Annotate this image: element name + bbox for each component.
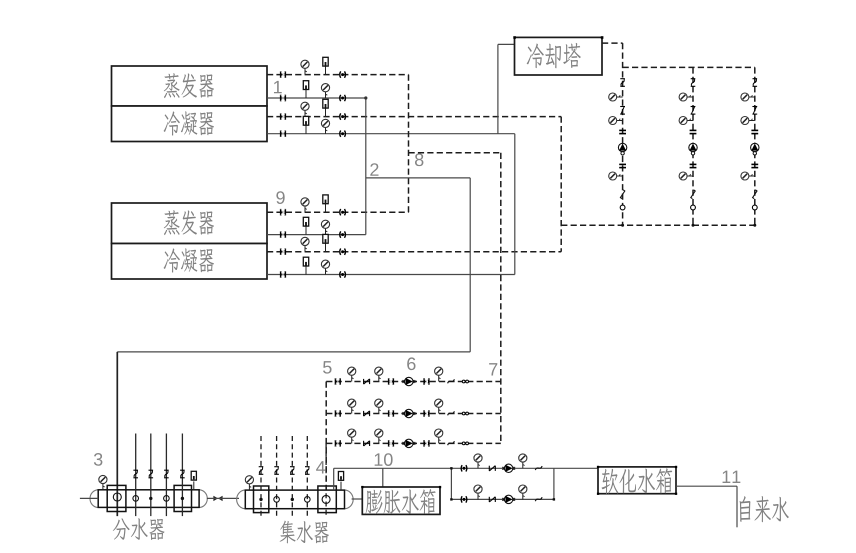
grip dot [361, 486, 363, 488]
grip dot [597, 466, 599, 468]
label node label 3 [94, 453, 103, 466]
pipe: cond1 cooling supply [267, 133, 515, 135]
label node label 11 [723, 471, 741, 483]
pressure gauge PG-B1 [321, 84, 329, 98]
valve row3 b [389, 440, 394, 447]
thermometer T-F1 [303, 217, 308, 234]
valve row2 c [424, 410, 429, 417]
pressure gauge distributor [99, 475, 107, 489]
makeup pump MP2 [502, 495, 515, 503]
valve V-E2 [340, 209, 346, 215]
thermometer T-A1 [323, 57, 328, 74]
pipe: cond1 cooling return (dashed) [267, 116, 561, 118]
pipe: cooling pump branch 2 vertical [692, 67, 694, 225]
valve V-A1 [281, 71, 286, 78]
riser dot [259, 498, 262, 501]
pipe: collector riser 4 (dashed) [306, 436, 308, 516]
valve collector riser 3 [290, 467, 295, 475]
riser dot [291, 498, 294, 501]
grip dot [597, 493, 599, 495]
pressure gauge cooling branch 1 lower [609, 172, 623, 180]
pressure gauge cooling branch 3 lower [741, 172, 755, 180]
flexible joint cooling branch 2 [691, 190, 695, 199]
pipe: tower outlet horizontal [498, 43, 515, 45]
thermometer T-C1 [323, 99, 328, 116]
pipe: tower supply riser x497 [497, 44, 499, 133]
pressure gauge row1 a [348, 367, 356, 381]
pipe: tap water drop [736, 486, 738, 527]
riser ring [274, 497, 280, 503]
label node label 4 [316, 461, 325, 473]
label node label 1 [274, 81, 282, 93]
valve row1 b [389, 378, 394, 385]
valve V-C1 [281, 113, 286, 120]
junction dot [621, 224, 624, 227]
softened water tank 软化水箱 box [598, 467, 676, 494]
label evaporator 2 text 蒸发器 [164, 210, 214, 235]
pressure gauge makeup row1 a [474, 454, 482, 468]
valve V-F2 [340, 231, 346, 237]
valve V-B1 [281, 95, 286, 102]
label node label 6 [407, 357, 415, 370]
chiller unit 1 condenser box [112, 106, 268, 142]
union row1 [462, 380, 468, 383]
pipe: distributor riser 3 [165, 434, 167, 517]
check valve cooling branch 2 [691, 107, 696, 115]
label node label 7 [489, 363, 497, 375]
grip dot [439, 486, 441, 488]
collector vessel body [237, 490, 354, 509]
label condenser 2 text 冷凝器 [164, 248, 214, 272]
cooling water pump CP2 [689, 143, 697, 155]
pipe: expansion tank drop [382, 468, 384, 487]
check valve cooling branch 3 [752, 107, 757, 115]
valve V-C2 [340, 113, 346, 119]
pressure gauge PG-E1 [301, 198, 309, 212]
chilled water pump P2 [403, 409, 416, 417]
valve collector riser 1 [259, 467, 264, 475]
thermometer T-E1 [323, 195, 328, 212]
pressure gauge cooling branch 2 mid [679, 117, 693, 125]
pressure gauge PG-H1 [321, 260, 329, 274]
valve collector riser 4 [305, 467, 310, 475]
label node label 10 [375, 453, 393, 466]
bowtie valve between headers [213, 496, 222, 501]
pipe: evap2 chilled supply [267, 234, 366, 236]
riser ring [305, 497, 311, 503]
flexible joint row1 [448, 379, 455, 383]
valve makeup row1 [461, 465, 467, 471]
pipe: chilled pump row 2 (dashed) [326, 413, 501, 415]
pressure gauge cooling branch 1 mid [609, 117, 623, 125]
cooling tower box [515, 37, 603, 75]
pipe: makeup pump right manifold [553, 468, 555, 499]
valve V-A2 [340, 71, 346, 77]
distributor inlet ring [113, 493, 121, 501]
pipe: distributor-collector link [207, 497, 239, 499]
pressure gauge makeup row2 a [474, 485, 482, 499]
label node label 8 [415, 153, 423, 166]
label softened water tank text 软化水箱 [602, 468, 673, 494]
thermometer T-G1 [323, 234, 328, 251]
pipe: makeup drop to collector [333, 468, 335, 490]
pipe: chilled pump row 1 (dashed) [326, 381, 501, 383]
distributor support leg right [174, 485, 191, 511]
pipe: chilled return drop x500 [500, 153, 502, 444]
pressure gauge PG-C1 [301, 102, 309, 116]
valve row1 a [336, 378, 341, 385]
check valve row1 [364, 379, 370, 384]
grip dot [675, 466, 677, 468]
pressure gauge row2 a [348, 399, 356, 413]
pipe: distributor riser 1 [135, 434, 137, 517]
pipe: cond2 cooling supply [267, 274, 515, 276]
pipe: chilled supply drop x470 [469, 178, 471, 352]
drain vent cooling branch 2 [691, 205, 696, 210]
flange pair cooling branch 1 above pump [619, 130, 626, 133]
pipe: collector riser 1 (dashed) [260, 436, 262, 516]
union row3 [462, 442, 468, 445]
flexible joint makeup row2 [535, 497, 542, 501]
pressure gauge row3 c [435, 429, 443, 443]
pipe: cond2 cooling return (dashed) [267, 251, 561, 253]
valve collector riser 2 [274, 467, 279, 475]
label tap water text 自来水 [740, 496, 789, 522]
pipe: cooling supply riser x514 [514, 134, 516, 275]
flexible joint row3 [448, 441, 455, 445]
pressure gauge row1 b [375, 367, 383, 381]
union row2 [462, 412, 468, 415]
label condenser 1 text 冷凝器 [164, 111, 214, 135]
junction dot [450, 467, 452, 469]
valve distributor riser 2 [149, 470, 154, 478]
pipe: cooling pump bottom header (dashed) [561, 224, 755, 226]
pipe: makeup line horizontal [334, 467, 598, 469]
pressure gauge PG-D1 [321, 119, 329, 133]
flexible joint makeup row1 [535, 466, 542, 470]
pressure gauge cooling branch 1 upper [609, 93, 623, 101]
pipe: chilled supply header 2 horizontal [366, 177, 470, 179]
check valve row2 [364, 411, 370, 416]
thermometer T-H1 [303, 257, 308, 274]
pipe: cooling return riser x561 [560, 117, 562, 252]
cooling water pump CP3 [751, 143, 759, 155]
distributor support leg left [107, 485, 126, 511]
pressure gauge row3 a [348, 429, 356, 443]
label cooling tower text 冷却塔 [527, 43, 581, 68]
pipe: distributor axis stub left [80, 497, 98, 499]
pipe: chilled supply run to distributor [117, 351, 470, 353]
collector outlet ring [322, 495, 330, 503]
pipe: collector axis link to tank [352, 498, 363, 500]
valve V-D2 [340, 131, 346, 137]
label evaporator 1 text 蒸发器 [164, 73, 214, 98]
valve V-E1 [281, 209, 286, 216]
valve V-D1 [281, 130, 286, 137]
grip dot [675, 493, 677, 495]
label expansion tank text 膨胀水箱 [366, 489, 436, 514]
valve row2 b [389, 410, 394, 417]
pipe: cooling pump branch 3 vertical [754, 67, 756, 225]
pipe: chilled return header 8 horizontal [409, 152, 501, 154]
pressure gauge row3 b [375, 429, 383, 443]
chilled water pump P3 [403, 439, 416, 447]
distributor vessel body [90, 490, 207, 508]
pressure gauge row2 b [375, 399, 383, 413]
junction dot [553, 498, 555, 500]
flange pair cooling branch 2 below pump [690, 164, 697, 167]
pressure gauge makeup row1 b [519, 454, 527, 468]
pressure gauge makeup row2 b [519, 485, 527, 499]
butterfly valve cooling branch 2 [691, 79, 696, 87]
valve V-H1 [281, 271, 286, 278]
riser ring [164, 496, 170, 502]
pressure gauge PG-A1 [301, 60, 309, 74]
chilled water pump P1 [403, 377, 416, 385]
pipe: evap1 chilled return (dashed) [267, 74, 409, 76]
check valve cooling branch 1 [620, 107, 625, 115]
label node label 2 [370, 163, 378, 176]
valve distributor riser 1 [133, 470, 138, 478]
riser ring [133, 496, 139, 502]
makeup pump MP1 [502, 464, 515, 472]
valve row3 a [336, 440, 341, 447]
grip dot [513, 36, 516, 39]
pipe: distributor riser 2 [150, 434, 152, 517]
flexible joint row2 [448, 411, 455, 415]
drain vent cooling branch 1 [620, 205, 625, 210]
thermometer distributor [191, 471, 196, 490]
valve makeup row2 [461, 496, 467, 502]
flange pair cooling branch 2 above pump [690, 130, 697, 133]
thermometer T-B1 [303, 81, 308, 98]
pressure gauge cooling branch 3 mid [741, 117, 755, 125]
check valve makeup row2 [489, 497, 495, 502]
flexible joint cooling branch 1 [620, 190, 624, 199]
cooling water pump CP1 [618, 143, 626, 155]
valve distributor riser 3 [164, 470, 169, 478]
pipe: collector riser 3 (dashed) [291, 436, 293, 516]
pipe: makeup pump lower row [451, 498, 554, 500]
pipe: chilled pump left column (dashed) [325, 382, 327, 491]
pipe: chilled return riser x408 [408, 75, 410, 213]
valve V-B2 [340, 95, 346, 101]
flange pair cooling branch 1 below pump [619, 164, 626, 167]
collector support leg right [318, 486, 336, 513]
thermometer T-D1 [303, 116, 308, 133]
label node label 5 [323, 361, 332, 374]
valve distributor riser 4 [180, 470, 185, 478]
pipe: distributor riser 4 [181, 434, 183, 517]
butterfly valve cooling branch 3 [753, 79, 758, 87]
expansion tank 膨胀水箱 box [362, 487, 440, 514]
valve V-F1 [281, 231, 286, 238]
junction dot [364, 96, 367, 99]
pressure gauge row1 c [435, 367, 443, 381]
valve row1 c [424, 378, 429, 385]
pipe: evap1 chilled supply [267, 97, 366, 99]
check valve makeup row1 [489, 466, 495, 471]
pipe: chilled supply riser x365 [365, 98, 367, 235]
pressure gauge cooling branch 3 upper [741, 93, 755, 101]
valve V-G1 [281, 248, 286, 255]
valve V-H2 [340, 271, 346, 277]
chiller unit 2 condenser box [112, 244, 268, 280]
pipe: collector to pump suction column (dashed) [325, 443, 327, 516]
drain vent cooling branch 3 [752, 205, 757, 210]
grip dot [601, 36, 604, 39]
junction dot [753, 224, 756, 227]
butterfly valve cooling branch 1 [620, 79, 625, 87]
flexible joint cooling branch 3 [753, 190, 757, 199]
collector support leg left [254, 486, 269, 513]
valve row3 c [424, 440, 429, 447]
pipe: collector riser 2 (dashed) [276, 436, 278, 516]
valve row2 a [336, 410, 341, 417]
pipe: tower return inlet (dashed) [602, 42, 623, 44]
chiller unit 2 evaporator box [112, 203, 268, 244]
thermometer collector [338, 472, 343, 491]
pipe: tap water horizontal [676, 485, 737, 487]
pipe: cooling pump branch 1 vertical [622, 43, 624, 225]
pressure gauge cooling branch 2 lower [679, 172, 693, 180]
label node label 9 [276, 191, 284, 204]
pressure gauge PG-G1 [301, 237, 309, 251]
pressure gauge row2 c [435, 399, 443, 413]
riser dot [181, 497, 184, 500]
riser dot [149, 497, 152, 500]
flange pair cooling branch 3 above pump [751, 130, 758, 133]
pipe: chilled pump row 3 (dashed) [326, 442, 501, 444]
label collector text 集水器 [280, 521, 329, 544]
check valve row3 [364, 441, 370, 446]
pressure gauge PG-F1 [321, 220, 329, 234]
pressure gauge collector [245, 476, 253, 490]
valve V-G2 [340, 249, 346, 255]
pipe: evap2 chilled return (dashed) [267, 211, 409, 213]
label distributor text 分水器 [113, 518, 165, 540]
junction dot [692, 224, 695, 227]
pressure gauge cooling branch 2 upper [679, 93, 693, 101]
pipe: makeup pump left manifold [450, 468, 452, 499]
pipe: cooling pump top header (dashed) [623, 66, 755, 68]
pipe: distributor inlet drop [116, 352, 118, 516]
junction dot [450, 498, 452, 500]
chiller unit 1 evaporator box [112, 66, 268, 106]
flange pair cooling branch 3 below pump [751, 164, 758, 167]
